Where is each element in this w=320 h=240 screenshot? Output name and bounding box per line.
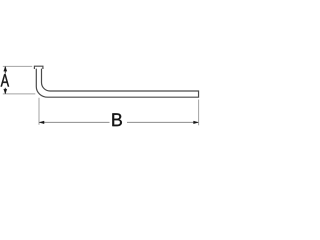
dimension B left extension line [38,98,40,125]
dimension A line lower segment [4,88,6,94]
dimension A top extension line [3,65,32,67]
dimension B right extension line [198,100,200,126]
dimension B line right segment [127,121,198,123]
pipe top rim (flared inlet bead) [34,66,43,69]
dimension B left arrowhead [39,121,44,124]
dimension A upper arrowhead [4,67,7,72]
label A [1,74,9,86]
dimension A bottom extension line [3,93,36,95]
dimension B line left segment [39,121,109,123]
dimension A line upper segment [4,67,6,74]
dimension B right arrowhead [194,121,199,124]
pipe body outline: left wall, outer bend, bottom line, rounded end cap, top line, inner bend, right wall [36,69,198,98]
label B [112,113,121,126]
dimension A lower arrowhead [4,89,7,94]
